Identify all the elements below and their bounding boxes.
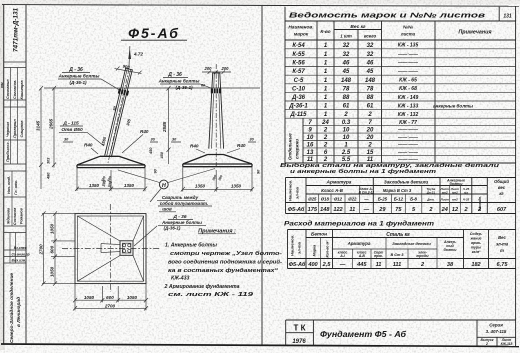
svg-text:——·——: ——·——	[397, 60, 418, 65]
svg-text:мн2: мн2	[452, 190, 458, 194]
svg-text:——·——: ——·——	[397, 157, 418, 162]
svg-text:КЖ - 133: КЖ - 133	[398, 103, 419, 109]
svg-text:600: 600	[106, 295, 114, 300]
svg-text:К-56: К-56	[292, 61, 305, 67]
svg-text:Жданова: Жданова	[7, 208, 11, 225]
svg-text:№№: №№	[403, 25, 413, 30]
svg-text:182: 182	[471, 262, 481, 268]
column edges	[209, 73, 224, 149]
svg-text:148: 148	[341, 78, 352, 84]
svg-text:Сварить между: Сварить между	[162, 195, 199, 200]
svg-text:6,75: 6,75	[497, 262, 509, 268]
svg-text:и анкерные болты на 1 фунд: и анкерные болты на 1 фундамент	[290, 168, 436, 175]
anchor plate square	[120, 241, 133, 256]
svg-text:Согласов: Согласов	[13, 207, 17, 225]
svg-text:111: 111	[393, 262, 402, 268]
svg-text:Вес: Вес	[498, 235, 506, 240]
svg-text:——·——: ——·——	[397, 142, 418, 147]
svg-text:1050: 1050	[50, 223, 55, 234]
svg-text:Ø12: Ø12	[334, 197, 343, 202]
svg-text:Анкерные болты: Анкерные болты	[58, 73, 100, 79]
svg-text:75: 75	[395, 207, 402, 213]
svg-text:R40: R40	[84, 143, 93, 148]
column top cap	[125, 68, 133, 70]
svg-text:Ø22: Ø22	[348, 197, 357, 202]
svg-text:1 шт: 1 шт	[340, 34, 352, 39]
svg-text:Арматура: Арматура	[326, 180, 352, 186]
svg-text:61: 61	[367, 104, 374, 110]
svg-text:38: 38	[447, 262, 454, 268]
svg-text:Бетон: Бетон	[311, 232, 327, 238]
svg-text:480: 480	[47, 172, 51, 180]
svg-text:(Д-36-1): (Д-36-1)	[175, 85, 193, 90]
notes	[164, 229, 283, 299]
svg-text:2 Армирование фундамента: 2 Армирование фундамента	[164, 283, 240, 290]
plan bottom dimensions	[73, 284, 148, 311]
svg-text:R40: R40	[237, 143, 246, 148]
svg-text:——·——: ——·——	[397, 149, 418, 154]
svg-text:450: 450	[160, 151, 164, 159]
svg-text:2.5: 2.5	[341, 150, 351, 156]
svg-text:Фундамент Ф5 - Аб: Фундамент Ф5 - Аб	[320, 329, 407, 339]
svg-text:Марка: Марка	[313, 245, 317, 257]
svg-text:200: 200	[221, 66, 230, 71]
svg-text:Дет.: Дет.	[426, 197, 434, 201]
svg-text:Ø18: Ø18	[321, 197, 330, 202]
svg-text:Арматура: Арматура	[347, 241, 371, 246]
svg-text:туры: туры	[471, 246, 481, 250]
svg-text:Чертил: Чертил	[6, 121, 10, 137]
svg-text:32: 32	[367, 43, 374, 49]
svg-text:Б-12: Б-12	[394, 197, 404, 202]
svg-text:16: 16	[307, 142, 314, 148]
svg-text:Примечания :: Примечания :	[198, 229, 236, 235]
svg-text:КЖ - 132: КЖ - 132	[398, 112, 419, 118]
plan left dimensions	[38, 211, 75, 285]
svg-text:КЖ - 77: КЖ - 77	[399, 120, 417, 126]
svg-text:кг/м³: кг/м³	[472, 250, 481, 254]
svg-text:А-I: А-I	[339, 254, 345, 258]
svg-text:мн2: мн2	[452, 197, 458, 201]
svg-text:Т К: Т К	[294, 324, 306, 333]
svg-text:КЖ - 65: КЖ - 65	[399, 78, 417, 84]
svg-text:тм: тм	[0, 82, 4, 88]
svg-text:78: 78	[367, 86, 374, 92]
svg-text:2665: 2665	[49, 118, 54, 130]
title block grid	[286, 320, 516, 346]
svg-text:КЖ - 68: КЖ - 68	[399, 86, 417, 92]
svg-text:Со вним.пр: Со вним.пр	[12, 253, 30, 257]
svg-text:—: —	[363, 207, 370, 213]
label Д-36 anchor bolts (plan leader)	[134, 214, 206, 246]
svg-text:Вз.спец: Вз.спец	[14, 246, 28, 250]
svg-text:32: 32	[343, 43, 350, 49]
svg-text:троды: троды	[416, 254, 428, 258]
svg-text:61: 61	[343, 104, 350, 110]
svg-text:R40: R40	[190, 144, 199, 149]
svg-text:Проверил: Проверил	[13, 119, 17, 138]
svg-text:Кашинцев: Кашинцев	[20, 80, 24, 100]
svg-text:——·——: ——·——	[397, 69, 418, 74]
svg-text:29: 29	[378, 207, 386, 213]
svg-text:11: 11	[376, 262, 382, 268]
frame left line	[3, 5, 5, 344]
column edge lines	[105, 68, 133, 157]
svg-text:—: —	[363, 197, 369, 202]
ground level line	[44, 87, 260, 89]
svg-text:2: 2	[323, 135, 328, 141]
svg-text:1050: 1050	[50, 266, 55, 277]
svg-text:Н: Н	[162, 183, 166, 189]
svg-text:—: —	[339, 262, 346, 268]
table2 data row	[288, 206, 507, 213]
svg-text:——·——: ——·——	[397, 127, 418, 132]
svg-text:12: 12	[452, 207, 459, 213]
svg-text:2: 2	[323, 128, 328, 134]
svg-text:собой полуавтомат.: собой полуавтомат.	[160, 200, 208, 206]
label Д-36 anchor bolts (right)	[158, 72, 211, 90]
svg-text:КЖ - 149: КЖ - 149	[398, 95, 419, 101]
svg-text:Д - 36: Д - 36	[68, 67, 83, 73]
svg-text:4.72: 4.72	[133, 52, 143, 57]
frame top line	[2, 5, 519, 7]
table1 data rows	[288, 43, 474, 164]
svg-text:10: 10	[343, 135, 350, 141]
svg-text:Ø25: Ø25	[308, 197, 317, 202]
svg-text:445: 445	[356, 262, 367, 268]
svg-text:С-10: С-10	[292, 86, 306, 92]
frame bottom line	[1, 344, 519, 347]
svg-text:20: 20	[366, 135, 374, 141]
svg-text:анкерные болты: анкерные болты	[433, 103, 473, 109]
svg-text:2: 2	[367, 112, 372, 118]
svg-text:стержни: стержни	[295, 139, 300, 159]
svg-text:303: 303	[47, 157, 51, 164]
footing slab double line	[183, 164, 252, 167]
footing outline	[77, 156, 145, 165]
svg-text:200: 200	[204, 66, 213, 71]
svg-text:7471тм-Д-131: 7471тм-Д-131	[13, 7, 20, 52]
svg-text:смотри чертеж „Узел болто-: смотри чертеж „Узел болто-	[170, 250, 282, 257]
svg-text:Наименов.: Наименов.	[288, 25, 313, 31]
svg-text:прок.: прок.	[374, 254, 383, 258]
dim 2585 between views	[149, 86, 171, 174]
svg-text:всего: всего	[364, 34, 377, 39]
svg-text:607: 607	[497, 207, 507, 213]
svg-text:45: 45	[342, 69, 350, 75]
footing outline	[183, 155, 252, 165]
svg-text:1350: 1350	[89, 183, 100, 188]
svg-text:КЖ-433: КЖ-433	[171, 276, 189, 282]
svg-text:R40: R40	[140, 129, 149, 134]
svg-text:К-57: К-57	[292, 69, 305, 75]
inclined column	[100, 46, 143, 188]
svg-text:С-5: С-5	[294, 78, 304, 84]
svg-text:болты: болты	[450, 182, 463, 186]
svg-text:Согласов.: Согласов.	[13, 80, 17, 99]
svg-text:Серия: Серия	[489, 323, 503, 328]
svg-text:2585: 2585	[162, 121, 167, 133]
svg-text:Романов: Романов	[20, 207, 24, 224]
svg-text:эл-та: эл-та	[295, 186, 300, 199]
svg-text:марок: марок	[294, 33, 309, 38]
svg-text:175: 175	[308, 207, 318, 213]
svg-text:Марка В Ст 3: Марка В Ст 3	[383, 188, 412, 193]
anchor bolt circles	[123, 244, 126, 247]
svg-text:Нач. отд.: Нач. отд.	[7, 176, 11, 194]
svg-text:т: т	[500, 248, 504, 253]
svg-text:2: 2	[323, 142, 328, 148]
leaders from node H	[118, 169, 215, 203]
svg-text:Б-25: Б-25	[378, 197, 388, 202]
svg-text:Сталь кг: Сталь кг	[386, 232, 410, 238]
svg-text:Составил: Составил	[6, 79, 10, 99]
top dim 200 200	[202, 71, 231, 73]
svg-text:24: 24	[321, 120, 329, 126]
svg-text:——·——: ——·——	[397, 51, 418, 56]
svg-text:Класс А-В: Класс А-В	[321, 188, 344, 193]
svg-text:46: 46	[366, 61, 374, 67]
svg-text:Д-36-1: Д-36-1	[288, 104, 308, 110]
stamp strip grid	[4, 62, 26, 263]
svg-text:мз: мз	[464, 190, 468, 194]
svg-text:1350: 1350	[195, 184, 206, 189]
svg-text:13: 13	[307, 150, 314, 156]
table2 grid	[286, 178, 516, 214]
svg-text:88: 88	[343, 95, 350, 101]
svg-text:2700: 2700	[104, 303, 116, 308]
plan centerlines	[62, 204, 160, 292]
column centerline	[108, 69, 130, 165]
column centerline	[215, 64, 217, 166]
svg-text:20: 20	[366, 128, 374, 134]
left stamp strip	[4, 7, 30, 343]
svg-text:Д-115: Д-115	[290, 112, 308, 118]
drawing title Ф5-Аб	[121, 25, 187, 41]
bottom dimension left elevation 1350 1350	[75, 168, 147, 191]
svg-text:1050: 1050	[127, 295, 138, 300]
label Д-36 anchor bolts (left)	[58, 67, 122, 92]
svg-text:кг: кг	[499, 191, 504, 196]
svg-text:Отдельные: Отдельные	[288, 133, 293, 160]
svg-text:Ф5-Аб: Ф5-Аб	[289, 261, 306, 268]
table1 grid	[285, 7, 516, 163]
column inner lines	[212, 73, 221, 149]
svg-text:Лист: Лист	[440, 197, 450, 201]
frame right line	[515, 6, 517, 346]
svg-text:вес: вес	[498, 185, 506, 190]
main vertical divider	[261, 6, 263, 345]
svg-text:КЖ-118: КЖ-118	[501, 342, 513, 346]
table3 data row	[289, 261, 509, 268]
svg-text:Анкерные болты: Анкерные болты	[158, 78, 200, 84]
svg-text:Примечания: Примечания	[458, 30, 492, 36]
svg-text:15: 15	[367, 150, 374, 156]
svg-text:Расход материалов на 1 фу: Расход материалов на 1 фундамент	[284, 221, 435, 228]
svg-text:Наименов.: Наименов.	[290, 235, 295, 256]
svg-text:Ф5-Аб: Ф5-Аб	[288, 206, 305, 213]
anchor bolt band	[211, 89, 221, 94]
svg-text:К-54: К-54	[292, 43, 305, 49]
svg-text:1350: 1350	[124, 183, 135, 188]
svg-text:В Ст.3-12: В Ст.3-12	[359, 190, 375, 194]
node H circle	[118, 169, 215, 203]
svg-text:450: 450	[149, 147, 153, 155]
svg-text:32: 32	[367, 52, 374, 58]
svg-text:А-В: А-В	[358, 254, 366, 258]
svg-text:Кол-во м³: Кол-во м³	[326, 240, 330, 258]
right elevation footing	[171, 138, 261, 175]
svg-text:К-55: К-55	[292, 52, 305, 58]
svg-text:жание: жание	[469, 237, 481, 241]
svg-text:11: 11	[349, 207, 355, 213]
plan outer square	[75, 214, 146, 284]
svg-text:вого соединения подножника и с: вого соединения подножника и серий-	[168, 259, 282, 266]
svg-text:78: 78	[343, 86, 350, 92]
svg-text:2: 2	[367, 142, 372, 148]
svg-text:Дн-21: Дн-21	[426, 190, 436, 194]
svg-text:мн2: мн2	[442, 190, 448, 194]
svg-text:Закладные детали: Закладные детали	[384, 180, 429, 185]
svg-text:Гл. инж.: Гл. инж.	[14, 180, 18, 195]
svg-text:КЖ - 135: КЖ - 135	[398, 43, 419, 49]
svg-text:эл-та: эл-та	[297, 241, 302, 254]
svg-text:0.3: 0.3	[342, 120, 351, 126]
svg-text:2700: 2700	[38, 244, 43, 256]
pyramid diagonals	[77, 216, 143, 281]
svg-text:(Д-36-1): (Д-36-1)	[69, 80, 87, 85]
svg-text:Содер-: Содер-	[470, 232, 483, 236]
svg-text:см. лист КЖ - 119: см. лист КЖ - 119	[168, 292, 253, 298]
svg-text:Ч-25: Ч-25	[463, 197, 470, 201]
svg-text:1350: 1350	[231, 184, 242, 189]
stamp strip divider	[25, 5, 27, 345]
svg-text:Д - 115: Д - 115	[62, 121, 79, 127]
left elevation footing	[63, 129, 158, 168]
svg-text:Прибыльс.: Прибыльс.	[6, 141, 10, 162]
svg-text:ка в составных фундаментах“: ка в составных фундаментах“	[168, 267, 279, 274]
svg-text:600: 600	[50, 245, 55, 253]
svg-text:арма-: арма-	[471, 241, 482, 245]
svg-text:1. Анкерные болты: 1. Анкерные болты	[165, 242, 217, 249]
svg-text:10: 10	[343, 128, 350, 134]
svg-text:(Д-36-1): (Д-36-1)	[164, 226, 181, 231]
column shaft projection funnel	[101, 244, 120, 253]
svg-text:Д - 36: Д - 36	[167, 72, 182, 78]
svg-text:2: 2	[343, 112, 348, 118]
svg-text:3. 407-115: 3. 407-115	[486, 329, 507, 334]
column top cap	[212, 72, 220, 74]
svg-text:Смирнов: Смирнов	[20, 120, 24, 138]
weld note text	[157, 195, 212, 212]
svg-text:листа: листа	[400, 32, 416, 37]
svg-text:К-во: К-во	[320, 29, 330, 35]
left vertical dimensions 3145 2665	[36, 86, 56, 189]
svg-text:в Ленинград: в Ленинград	[16, 297, 22, 327]
svg-text:Наименов.: Наименов.	[288, 180, 293, 201]
svg-text:45: 45	[366, 69, 374, 75]
svg-text:24: 24	[441, 207, 449, 213]
svg-text:Закладные детали: Закладные детали	[392, 241, 431, 246]
svg-text:131: 131	[503, 14, 512, 20]
label Д-115 hole	[59, 121, 104, 147]
svg-text:Вес кг: Вес кг	[350, 24, 366, 30]
bottom dimension right elevation 1350 1350	[181, 167, 254, 192]
svg-text:2,5: 2,5	[322, 262, 332, 268]
svg-text:148: 148	[320, 207, 330, 213]
svg-text:Общий: Общий	[494, 179, 509, 184]
svg-text:Б-8: Б-8	[410, 197, 417, 202]
footing slab double line	[77, 165, 145, 168]
svg-text:Ф5-Аб: Ф5-Аб	[128, 25, 180, 41]
svg-text:Ведомость марок и №№ листо: Ведомость марок и №№ листов	[289, 12, 486, 20]
svg-text:88: 88	[367, 95, 374, 101]
svg-text:Северо-Западное отделение: Северо-Западное отделение	[9, 273, 15, 343]
svg-text:болты: болты	[444, 248, 457, 252]
svg-text:Вых.изм.: Вых.изм.	[12, 259, 27, 263]
svg-text:32: 32	[343, 52, 350, 58]
svg-text:46: 46	[342, 61, 350, 67]
svg-text:400: 400	[307, 262, 318, 268]
svg-text:——·——: ——·——	[397, 135, 418, 140]
svg-text:148: 148	[365, 78, 376, 84]
slope flag 4.72	[129, 46, 130, 69]
svg-text:10: 10	[307, 135, 314, 141]
svg-text:В Ст 3: В Ст 3	[390, 253, 404, 257]
table3 grid	[288, 230, 516, 269]
svg-text:эл-та: эл-та	[496, 242, 509, 247]
dim 900 across column top	[115, 69, 142, 74]
column inner taper lines	[107, 69, 131, 157]
sheet number box 131	[499, 7, 515, 21]
svg-text:122: 122	[333, 207, 343, 213]
anchor bolt band (blackened)	[118, 91, 128, 93]
svg-text:шов: шов	[162, 207, 172, 212]
svg-text:2: 2	[485, 342, 488, 346]
svg-text:3145: 3145	[36, 120, 41, 131]
plan inner square	[77, 216, 143, 281]
svg-text:1050: 1050	[84, 295, 95, 300]
svg-text:Д-36: Д-36	[291, 95, 306, 101]
svg-text:1976: 1976	[292, 339, 306, 345]
